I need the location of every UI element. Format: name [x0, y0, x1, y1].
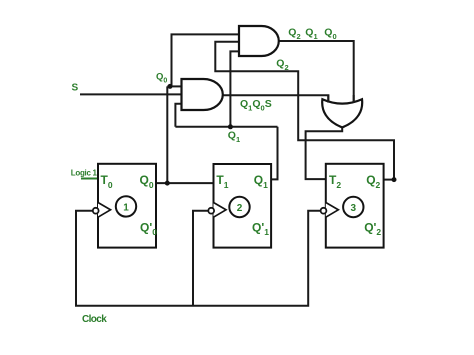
wire Q0 from FF1 output to FF2 T1 input	[156, 182, 214, 184]
wire Q2 output stub from FF3	[384, 179, 394, 181]
svg-text:2: 2	[237, 203, 243, 214]
wire AND2 output to OR left input	[223, 95, 329, 102]
flip-flop 1 clock triangle	[98, 203, 111, 218]
svg-text:3: 3	[351, 203, 357, 214]
wire Q1 up to AND1 bottom input	[230, 51, 239, 126]
flip-flop 2 number circle	[229, 197, 249, 217]
wire clock bus	[76, 211, 320, 306]
wire Q1 to AND2 bottom input	[175, 104, 181, 127]
node Q0 junction at gates	[168, 84, 173, 89]
wire Q2 feedback up and left	[215, 42, 394, 180]
AND gate U2 (Q1Q0S)	[182, 79, 223, 110]
wire Q0 vertical riser	[166, 86, 168, 183]
OR gate U3	[322, 99, 362, 127]
svg-text:Logic 1: Logic 1	[71, 168, 98, 177]
wire Q0 up to AND1 top input	[172, 34, 240, 86]
node Q1 junction	[228, 124, 233, 129]
flip-flop 3 number circle	[343, 197, 363, 217]
flip-flop 1 number circle	[116, 196, 136, 216]
wire Q1 horizontal bus	[175, 126, 277, 128]
svg-text:Clock: Clock	[82, 314, 107, 325]
op-amp AND gate U1 (Q2Q1Q0)	[239, 26, 279, 56]
wire Q0 stub into AND2 top input	[167, 85, 181, 87]
flip-flop 2 clock triangle	[214, 203, 227, 218]
wire OR output down to FF3 T2 input	[306, 126, 343, 179]
svg-text:1: 1	[123, 203, 129, 214]
svg-text:S: S	[72, 83, 79, 94]
wire OR right input stub inside dip	[353, 95, 355, 103]
wire clock branch to FF2	[193, 211, 208, 306]
wire S input line	[80, 93, 182, 95]
svg-text:Q1Q0S: Q1Q0S	[240, 98, 272, 113]
flip-flop 3 clock bubble	[321, 208, 327, 214]
svg-text:Q1: Q1	[305, 27, 317, 42]
svg-text:Q2: Q2	[288, 27, 300, 42]
svg-text:Q1: Q1	[228, 129, 240, 144]
node Q2 junction	[392, 177, 397, 182]
svg-text:Q2: Q2	[276, 57, 288, 72]
flip-flop box 3	[326, 164, 384, 248]
flip-flop box 1	[98, 164, 156, 248]
wire AND1 output to OR right input	[279, 41, 354, 103]
node Q0 junction at FF1 output	[165, 181, 170, 186]
svg-text:Q0: Q0	[324, 27, 336, 42]
wire Q1 output stub from FF2	[271, 127, 277, 180]
flip-flop 1 clock bubble	[93, 208, 99, 214]
flip-flop 3 clock triangle	[326, 203, 339, 218]
flip-flop 2 clock bubble	[208, 208, 214, 214]
svg-text:Q0: Q0	[156, 71, 167, 84]
wire OR left input stub inside dip	[327, 95, 329, 103]
flip-flop box 2	[214, 164, 272, 248]
wire Logic 1 to T0 input	[81, 178, 98, 180]
